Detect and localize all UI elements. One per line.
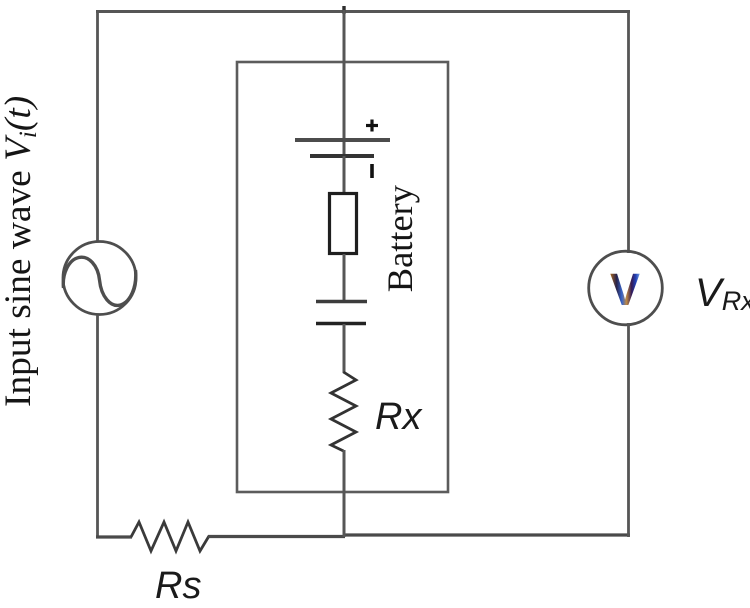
wire left lower (96, 315, 99, 538)
resistor Rx (331, 372, 356, 451)
svg-text:Rx: Rx (375, 396, 423, 438)
junction node top (342, 6, 345, 14)
svg-text:VRx: VRx (695, 271, 750, 316)
wire left upper (96, 10, 99, 241)
resistor Rs (131, 522, 209, 551)
wire top (96, 10, 630, 13)
capacitor C1 (316, 302, 367, 324)
battery enclosure box (237, 62, 448, 492)
internal resistance box (330, 194, 357, 254)
svg-text:Rs: Rs (155, 565, 201, 607)
wire battery to resistor box (343, 156, 346, 193)
AC source (63, 242, 136, 315)
wire right lower (627, 323, 630, 537)
wire middle bottom (343, 450, 346, 537)
wire capacitor to Rx (343, 324, 346, 373)
wire right upper (627, 10, 630, 253)
wire bottom middle (208, 535, 345, 538)
svg-text:Battery: Battery (380, 184, 420, 292)
voltmeter V (589, 251, 663, 325)
battery minus sign (370, 164, 374, 178)
svg-text:V: V (610, 264, 640, 315)
wire middle top (343, 10, 346, 140)
battery plus sign (366, 120, 378, 132)
wire bottom left (96, 535, 132, 538)
svg-text:Input sine wave Vi(t): Input sine wave Vi(t) (0, 96, 42, 407)
wire bottom right (344, 533, 630, 536)
battery B1 (295, 138, 390, 158)
wire resistor box to capacitor (343, 254, 346, 301)
